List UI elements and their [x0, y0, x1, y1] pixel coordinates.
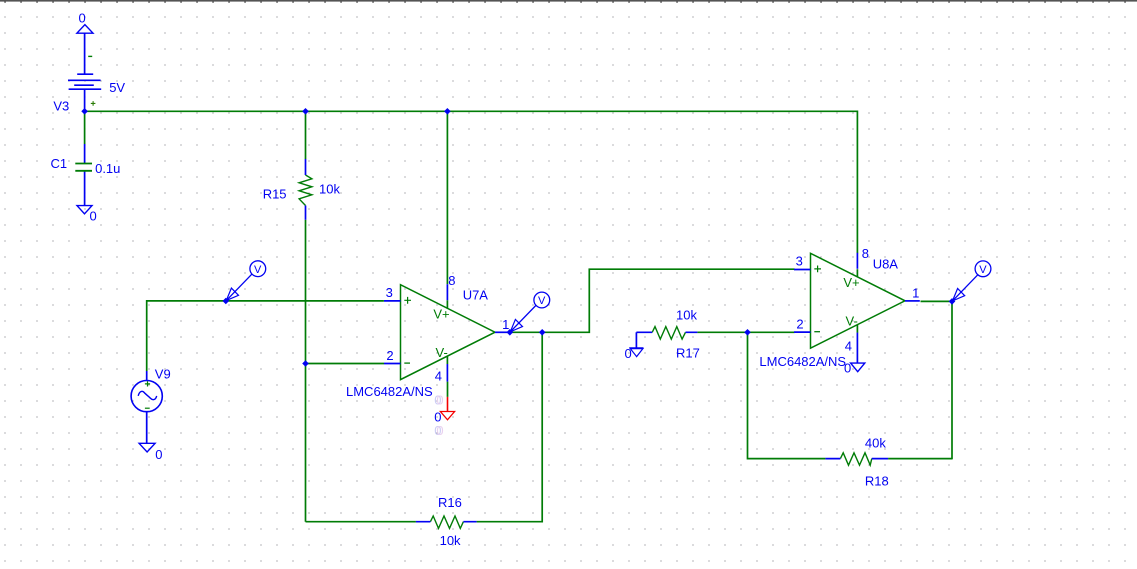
node R16 branch [539, 329, 546, 336]
source V9 sine [138, 391, 157, 399]
source V9 circle [131, 381, 162, 412]
U8A pin 3 stub [794, 269, 811, 271]
op-amp U7A triangle [401, 285, 496, 380]
svg-text:8: 8 [448, 273, 455, 288]
U7A output pin 1 stub [495, 331, 510, 333]
svg-text:3: 3 [796, 254, 803, 269]
svg-text:8: 8 [862, 246, 869, 261]
U8A plus input mark [814, 266, 821, 273]
svg-text:0.1u: 0.1u [95, 161, 120, 176]
svg-text:0: 0 [844, 361, 851, 376]
resistor R16 zigzag [430, 516, 463, 528]
svg-text:V+: V+ [433, 307, 449, 322]
svg-text:1: 1 [912, 286, 919, 301]
U7A pin 2 stub [384, 363, 401, 365]
resistor R16 pins [416, 521, 477, 523]
svg-text:V3: V3 [53, 99, 69, 114]
resistor R15 pins [305, 159, 307, 220]
source V9 plus mark [145, 381, 150, 386]
ground 0 at R17 [629, 348, 643, 357]
node probe V9 wire [223, 298, 230, 305]
svg-text:R16: R16 [438, 495, 462, 510]
wire rail to U7A pin 8 [446, 111, 448, 285]
wire U7A pin4 to red ground [447, 382, 449, 397]
ground 0 (red) at U7A pin4 [440, 412, 454, 420]
wire U8A pin2 down to R18 [748, 332, 826, 458]
svg-text:C1: C1 [51, 156, 68, 171]
battery V3 [68, 33, 101, 111]
svg-text:0: 0 [79, 10, 86, 25]
probe V at V9 node [226, 261, 265, 301]
svg-text:V: V [254, 264, 262, 276]
svg-text:0: 0 [90, 209, 97, 224]
ground 0 at U8A pin4 [851, 363, 865, 372]
svg-text:0: 0 [155, 447, 162, 462]
ground 0 at battery negative (up triangle) [77, 25, 93, 34]
wire U7A out to U8A pin3 [510, 269, 795, 332]
resistor R17 zigzag [652, 327, 685, 340]
svg-text:V-: V- [436, 345, 448, 360]
resistor R18 zigzag [840, 453, 871, 465]
U7A V- pin stub [446, 364, 448, 382]
capacitor C1 pins [84, 144, 86, 206]
svg-text:3: 3 [386, 285, 393, 300]
U7A V+ pin stub [446, 284, 448, 300]
svg-text:R17: R17 [676, 346, 700, 361]
svg-text:0: 0 [436, 393, 443, 408]
probe V at U8A output [953, 261, 991, 301]
U8A V+ pin stub [856, 253, 858, 269]
U7A minus input mark [404, 362, 410, 364]
svg-text:0: 0 [434, 409, 441, 424]
node R15/pin2 wire [302, 360, 309, 367]
U7A V- symbol stub [446, 356, 448, 364]
wire drop to U8A pin 8 [856, 111, 858, 254]
svg-text:5V: 5V [109, 80, 125, 95]
node R18 branch [744, 329, 751, 336]
svg-text:10k: 10k [319, 181, 340, 196]
node battery/rail [81, 108, 88, 115]
svg-text:V: V [538, 295, 546, 307]
svg-text:10k: 10k [676, 308, 697, 323]
svg-text:10k: 10k [440, 533, 461, 548]
node U8A output [949, 298, 956, 305]
svg-text:V: V [979, 264, 987, 276]
ground 0 below V9 [139, 443, 155, 452]
wire R16 right up to U7A out [477, 332, 543, 522]
capacitor C1 plates [75, 164, 92, 171]
source V9 minus mark [145, 407, 150, 409]
svg-text:1: 1 [502, 317, 509, 332]
ground 0 below C1 [77, 206, 92, 214]
wire R17 left to ground [635, 332, 637, 348]
svg-text:0: 0 [625, 346, 632, 361]
wire R17 to U8A pin2 [697, 331, 794, 333]
svg-text:U7A: U7A [463, 287, 489, 302]
svg-text:2: 2 [386, 348, 393, 363]
svg-text:LMC6482A/NS: LMC6482A/NS [759, 354, 846, 369]
svg-text:R15: R15 [263, 186, 287, 201]
svg-text:U8A: U8A [873, 257, 899, 272]
battery minus mark [88, 55, 92, 57]
U7A pin 3 stub [384, 300, 401, 302]
U7A V+ symbol stub [446, 300, 448, 308]
svg-text:4: 4 [845, 339, 852, 354]
wire rail to R15 top [305, 111, 307, 159]
resistor R18 pins [825, 458, 888, 460]
resistor R17 pins [636, 331, 697, 333]
svg-text:0: 0 [436, 423, 443, 438]
U8A V- symbol stub [856, 325, 858, 333]
probe V at U7A output [510, 292, 549, 332]
svg-text:V9: V9 [155, 367, 171, 382]
svg-text:V-: V- [846, 314, 858, 329]
U8A pin 2 stub [794, 331, 811, 333]
wire R16 left to R15 column [306, 521, 416, 523]
wire R15 to U7A pin2 [306, 363, 385, 365]
wire battery to C1 [84, 111, 86, 144]
wire U8A out [921, 300, 953, 302]
node U7A output [507, 329, 514, 336]
battery plus mark [91, 101, 96, 106]
U8A V- pin stub [856, 333, 858, 364]
wire R18 right up to U8A out [888, 301, 952, 459]
wire R15 bottom down to R16 [305, 220, 307, 522]
red ground wire at U7A pin4 [447, 397, 449, 412]
U8A output pin 1 stub [905, 300, 920, 302]
svg-text:R18: R18 [865, 474, 889, 489]
svg-text:2: 2 [796, 317, 803, 332]
source V9 pins [146, 371, 148, 443]
wire top rail V3+ to U8A V+ drop [85, 110, 858, 112]
svg-text:40k: 40k [865, 436, 886, 451]
wire V9 to U7A pin3 [147, 301, 384, 371]
node rail/U7A V+ [444, 108, 451, 115]
svg-text:4: 4 [435, 369, 442, 384]
resistor R15 zigzag [299, 175, 312, 206]
node rail/R15 [302, 108, 309, 115]
U7A plus input mark [404, 297, 411, 304]
svg-text:LMC6482A/NS: LMC6482A/NS [346, 384, 433, 399]
svg-text:V+: V+ [843, 275, 859, 290]
op-amp U8A triangle [811, 253, 906, 348]
U8A V+ symbol stub [856, 269, 858, 277]
U8A minus input mark [814, 331, 820, 333]
